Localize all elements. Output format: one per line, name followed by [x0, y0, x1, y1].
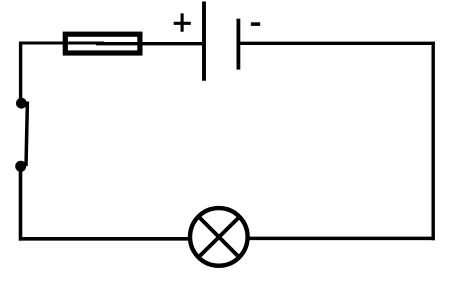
switch bottom contact dot [15, 161, 26, 172]
battery negative plate [236, 19, 240, 70]
fuse F1 [65, 34, 140, 53]
wire bottom-right (corner to lamp) [248, 237, 435, 241]
switch blade [26, 102, 27, 167]
wire top-left (corner to battery + plate, passes through fuse) [19, 42, 104, 45]
wire bottom-left (lamp to bottom-left corner) [19, 237, 190, 241]
lamp L1 [190, 208, 248, 266]
switch top contact dot [16, 98, 27, 109]
wire top-right (battery - plate to top-right corner) [238, 42, 434, 45]
wire left upper (top corner down to switch) [19, 42, 22, 102]
wire left lower (bottom corner up to switch) [19, 165, 23, 241]
switch S1 [15, 98, 27, 172]
wire segment inside fuse to + plate [96, 42, 203, 45]
label + [174, 13, 191, 31]
battery positive plate [202, 2, 206, 81]
label - [251, 22, 260, 26]
wire right side [432, 42, 435, 241]
